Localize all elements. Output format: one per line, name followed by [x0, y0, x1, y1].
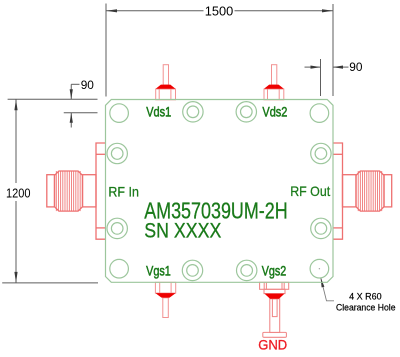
svg-text:Vds2: Vds2 [262, 103, 287, 119]
svg-text:90: 90 [349, 60, 362, 74]
svg-text:RF Out: RF Out [290, 183, 330, 199]
svg-text:4 X R60: 4 X R60 [349, 292, 382, 302]
svg-text:Vds1: Vds1 [146, 103, 171, 119]
svg-text:1500: 1500 [205, 3, 234, 18]
svg-text:Vgs1: Vgs1 [146, 262, 171, 278]
svg-text:GND: GND [258, 338, 287, 354]
svg-text:Vgs2: Vgs2 [262, 262, 287, 278]
svg-text:RF In: RF In [108, 184, 138, 200]
svg-text:SN XXXX: SN XXXX [144, 219, 221, 242]
svg-text:90: 90 [81, 78, 94, 92]
svg-text:Clearance Hole: Clearance Hole [336, 303, 396, 313]
svg-text:1200: 1200 [6, 185, 31, 200]
